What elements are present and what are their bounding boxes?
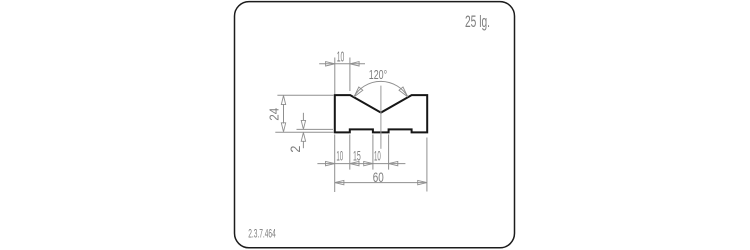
dim 24: dimension line (283, 104, 285, 124)
dim 24: bottom arrow (281, 123, 285, 132)
label 25 lg. (465, 12, 490, 31)
dim 60: right arrow (418, 180, 427, 184)
dim 60: value text (373, 169, 384, 185)
svg-text:120°: 120° (369, 68, 387, 82)
dim 2: upper arrow (301, 120, 305, 129)
dim row: arrow at far left pointing right (326, 161, 335, 165)
svg-text:24: 24 (268, 108, 282, 121)
dim 2: lower arrow (301, 133, 305, 142)
die block outline (335, 95, 427, 132)
dim 120 deg: arc (354, 81, 408, 97)
dim 2: lower leader line (302, 141, 304, 148)
dim row 10-15-10: dimension line (317, 163, 405, 165)
svg-text:2.3.7.464: 2.3.7.464 (248, 226, 276, 240)
dim 2: value text (288, 146, 303, 153)
dim 2: bottom extension line (275, 131, 333, 133)
dim row: value 10 middle (374, 147, 381, 163)
dim 10 top: extension line left (334, 58, 336, 95)
bottom dims: extension line tab left (372, 135, 374, 170)
dim 24: value text (268, 108, 282, 121)
svg-text:2: 2 (288, 146, 303, 153)
bottom dims: extension line notch left (349, 135, 351, 170)
dim 24: top arrow (281, 96, 285, 105)
svg-text:15: 15 (353, 147, 361, 163)
dim 60: left arrow (335, 180, 344, 184)
dim 120 deg: value text (369, 68, 387, 82)
dim 2: notch floor extension line (297, 128, 334, 130)
card border (235, 2, 515, 248)
dim 2: upper leader line (302, 113, 304, 121)
dim row: value 15 (353, 147, 361, 163)
drawing number 2.3.7.464 (248, 226, 276, 240)
dim 24: top extension line (277, 94, 333, 96)
bottom dims: extension line far right (426, 138, 428, 192)
dim 120 deg: right arrow (399, 87, 408, 97)
bottom dims: extension line tab right (388, 135, 390, 170)
svg-text:25 lg.: 25 lg. (465, 12, 490, 31)
dim 10 top: value text (337, 50, 345, 66)
dim 120 deg: left arrow (354, 87, 363, 97)
centerline (380, 86, 382, 149)
bottom dims: extension line far left (334, 135, 336, 193)
dim row: arrow at tab right pointing left (389, 161, 398, 165)
dim row: arrow at tab left pointing right (364, 161, 373, 165)
dim 10 top: left arrow (326, 62, 335, 66)
svg-text:10: 10 (374, 147, 381, 163)
svg-text:10: 10 (336, 147, 343, 163)
dim 10 top: dimension line (319, 63, 365, 65)
dim row: value 10 left (336, 147, 343, 163)
svg-text:60: 60 (373, 169, 384, 185)
dim row: arrow at notch left pointing left (350, 161, 359, 165)
dim 10 top: extension line right (349, 58, 351, 92)
dim 60: dimension line (335, 182, 427, 184)
dim 10 top: right arrow (350, 62, 359, 66)
svg-text:10: 10 (337, 50, 345, 66)
